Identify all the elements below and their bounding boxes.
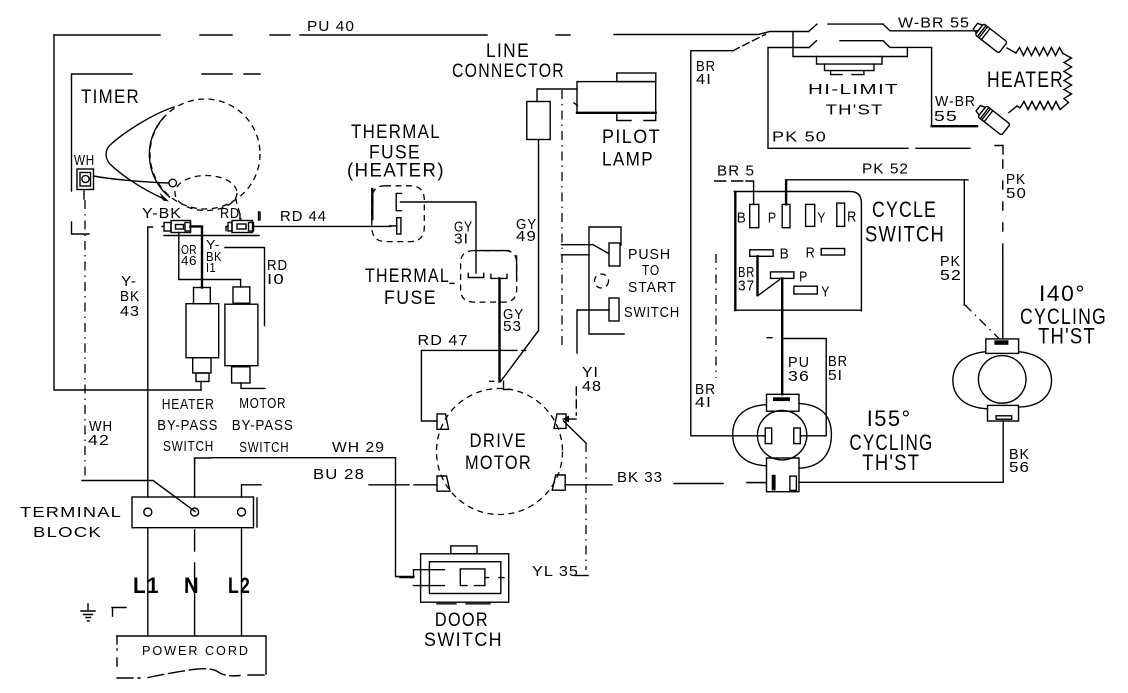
cycle switch contact P [771, 272, 794, 279]
label PK 50 (right) [1006, 171, 1027, 202]
label MOTOR BY-PASS SWITCH [232, 395, 294, 456]
wire GY 31 [401, 202, 477, 273]
wire RD 44 [254, 225, 392, 227]
svg-text:CONNECTOR: CONNECTOR [452, 61, 565, 82]
cycle switch contact B [750, 250, 780, 295]
svg-text:DRIVE: DRIVE [470, 431, 528, 452]
svg-text:BR 5: BR 5 [717, 163, 755, 180]
wire GY 53 [490, 279, 509, 390]
label BR 41 (top) [696, 58, 716, 88]
label OR 46 [181, 242, 197, 268]
label RD 10 [267, 257, 288, 288]
svg-text:42: 42 [88, 432, 110, 449]
svg-text:R: R [847, 209, 857, 226]
wire RD 10 [225, 248, 265, 326]
timer cam [94, 99, 261, 219]
cycle switch box [734, 192, 861, 311]
svg-text:55: 55 [934, 108, 958, 125]
label LINE CONNECTOR [452, 41, 565, 82]
svg-text:37: 37 [738, 278, 755, 295]
label DOOR SWITCH [424, 610, 503, 651]
wire PK 50 [768, 49, 1003, 339]
label DRIVE MOTOR [465, 431, 532, 474]
motor by-pass switch [225, 287, 265, 389]
label GY 31 [454, 219, 473, 248]
svg-text:I55°: I55° [867, 406, 912, 431]
wire BR 51 [767, 338, 826, 436]
svg-text:(HEATER): (HEATER) [347, 161, 445, 182]
wire L1 [147, 528, 149, 636]
svg-text:CYCLE: CYCLE [872, 197, 937, 222]
svg-text:BK 33: BK 33 [617, 469, 663, 486]
wire YI 48 [562, 387, 588, 576]
svg-text:HEATER: HEATER [162, 396, 215, 413]
cycle switch terminal P [782, 204, 790, 227]
155 cycling thermostat [733, 394, 832, 491]
push-to-start switch [562, 227, 625, 353]
label WH 42 [88, 418, 113, 449]
svg-text:Y-BK: Y-BK [142, 205, 182, 222]
svg-text:YL 35: YL 35 [532, 563, 579, 580]
svg-text:RD 44: RD 44 [280, 208, 327, 225]
svg-text:W-BR 55: W-BR 55 [898, 15, 970, 32]
label HI-LIMIT TH'ST [808, 81, 899, 119]
label TERMINAL BLOCK [20, 504, 122, 541]
svg-text:PK 50: PK 50 [772, 129, 827, 146]
wire PK 52 [786, 180, 998, 338]
svg-text:DOOR: DOOR [435, 610, 489, 631]
wire Y-BK 11 [191, 226, 203, 287]
svg-text:Y: Y [821, 284, 830, 301]
heater by-pass switch [186, 288, 219, 391]
label PUSH TO START SWITCH [624, 246, 680, 321]
timer dashed enclosure [72, 74, 261, 236]
wire BK 56 [799, 421, 1003, 482]
wire L2 [241, 528, 243, 636]
timer terminal RD [226, 214, 254, 233]
power cord [117, 636, 266, 678]
svg-text:P: P [768, 210, 777, 227]
svg-text:WH: WH [74, 152, 95, 169]
label YI 48 [582, 364, 602, 395]
wire BU 28 [242, 485, 438, 497]
svg-text:56: 56 [1009, 459, 1030, 476]
svg-text:THERMAL: THERMAL [351, 122, 441, 143]
svg-text:43: 43 [120, 303, 140, 320]
wire WH 42 [84, 200, 86, 478]
wire N [194, 459, 196, 637]
label W-BR 55 (lower) [934, 93, 976, 125]
svg-text:POWER CORD: POWER CORD [142, 643, 250, 658]
wire Y-BK 43 [148, 227, 153, 497]
svg-text:PU 40: PU 40 [307, 18, 355, 35]
label BR 37 [738, 264, 755, 295]
svg-text:TO: TO [642, 262, 660, 279]
svg-text:START: START [628, 279, 677, 296]
label PU 36 [788, 354, 810, 385]
label HEATER BY-PASS SWITCH [157, 396, 218, 455]
svg-text:53: 53 [503, 318, 522, 335]
svg-text:R: R [806, 245, 816, 262]
svg-text:SWITCH: SWITCH [865, 222, 945, 247]
svg-text:4I: 4I [695, 394, 712, 411]
svg-text:FUSE: FUSE [384, 288, 437, 309]
label Y-BK 11 [206, 237, 222, 275]
wire PU 40 (top bus from timer box to hi-limit) [54, 32, 809, 36]
svg-text:LAMP: LAMP [602, 150, 654, 171]
timer terminal WH [77, 169, 94, 199]
wire GY 49 [501, 140, 539, 381]
wire BK 33 [565, 483, 765, 485]
cycle switch contact Y [794, 286, 817, 294]
label GY 53 [503, 306, 524, 335]
label 140 CYCLING TH'ST [1020, 281, 1107, 349]
hi-limit thermostat [768, 24, 907, 75]
svg-text:SWITCH: SWITCH [424, 630, 503, 651]
svg-text:THERMAL: THERMAL [365, 266, 450, 287]
wire BR 37 [715, 254, 717, 378]
svg-text:TH'ST: TH'ST [1038, 324, 1096, 349]
label BR 41 (lower) [695, 381, 716, 411]
svg-text:36: 36 [788, 368, 810, 385]
140 cycling thermostat [953, 339, 1052, 421]
svg-text:P: P [799, 269, 808, 286]
svg-text:SWITCH: SWITCH [163, 438, 214, 455]
svg-text:BLOCK: BLOCK [33, 524, 102, 541]
svg-text:TH'ST: TH'ST [862, 450, 920, 475]
svg-text:SWITCH: SWITCH [239, 439, 289, 456]
heater element [971, 21, 1071, 136]
thermal fuse (lower) [450, 251, 517, 303]
svg-text:TIMER: TIMER [81, 87, 140, 108]
terminal block [132, 497, 257, 528]
wire BR 5 [715, 181, 754, 204]
label CYCLE SWITCH [865, 197, 945, 247]
svg-text:50: 50 [1006, 185, 1027, 202]
svg-text:B: B [737, 210, 747, 227]
svg-text:49: 49 [516, 228, 537, 245]
svg-text:MOTOR: MOTOR [239, 395, 286, 412]
label Y-BK 43 [120, 273, 140, 320]
svg-text:TH'ST: TH'ST [826, 102, 884, 119]
cycle switch terminal B [750, 204, 759, 227]
svg-text:I0: I0 [267, 271, 285, 288]
cycle switch terminal Y [806, 204, 815, 226]
cycle switch terminal R [837, 203, 845, 226]
wire W-BR 55 (lower) [883, 41, 977, 127]
thermal fuse (heater) [372, 186, 425, 242]
svg-text:N: N [184, 573, 200, 598]
wire RD 47 [421, 350, 525, 421]
wire W-BR 55 (upper) [883, 24, 977, 31]
svg-text:BY-PASS: BY-PASS [232, 417, 294, 434]
drive motor [437, 389, 567, 515]
dash-dot line (timer feed to push-to-start) [561, 90, 563, 350]
label GY 49 [516, 216, 537, 245]
wire PU 36 [781, 278, 783, 394]
svg-text:I1: I1 [206, 260, 216, 275]
wire BR 41 [691, 34, 766, 435]
svg-text:SWITCH: SWITCH [624, 304, 680, 321]
svg-text:BY-PASS: BY-PASS [157, 417, 218, 434]
svg-text:PILOT: PILOT [602, 127, 661, 148]
svg-text:HI-LIMIT: HI-LIMIT [808, 81, 899, 98]
pilot lamp [574, 73, 656, 121]
cycle switch contact R [821, 249, 844, 256]
svg-text:LINE: LINE [486, 41, 530, 62]
timer outer box (left edge and bottom) [54, 35, 201, 390]
svg-text:L2: L2 [228, 573, 251, 598]
svg-text:TERMINAL: TERMINAL [20, 504, 122, 521]
ground symbol [81, 604, 126, 621]
svg-text:RD 47: RD 47 [418, 332, 469, 349]
svg-text:PK 52: PK 52 [862, 161, 909, 178]
svg-text:B: B [780, 246, 790, 263]
label PILOT LAMP [602, 127, 661, 171]
timer terminal Y-BK [162, 221, 191, 233]
svg-text:WH 29: WH 29 [332, 439, 385, 456]
svg-text:4I: 4I [696, 71, 712, 88]
label 155 CYCLING TH'ST [849, 406, 933, 475]
svg-text:46: 46 [181, 253, 197, 268]
svg-text:PUSH: PUSH [628, 246, 671, 263]
svg-text:48: 48 [582, 378, 602, 395]
wire OR 46 [179, 233, 241, 288]
svg-text:MOTOR: MOTOR [465, 453, 532, 474]
label BK 56 [1009, 446, 1030, 476]
wire WH 29 [195, 458, 414, 577]
svg-text:3I: 3I [454, 231, 469, 248]
svg-text:BU 28: BU 28 [313, 466, 365, 483]
label BR 51 [828, 353, 848, 384]
label THERMAL FUSE (HEATER) [347, 122, 445, 182]
svg-text:52: 52 [940, 267, 962, 284]
svg-text:5I: 5I [828, 367, 843, 384]
door switch [400, 546, 509, 604]
svg-text:HEATER: HEATER [987, 67, 1064, 92]
svg-text:I40°: I40° [1039, 281, 1086, 306]
svg-text:RD: RD [220, 205, 240, 222]
label THERMAL FUSE (lower) [365, 266, 450, 309]
svg-text:Y: Y [817, 210, 826, 227]
line connector [527, 89, 577, 140]
label PK 52 (right) [940, 253, 962, 284]
svg-text:L1: L1 [133, 573, 160, 598]
